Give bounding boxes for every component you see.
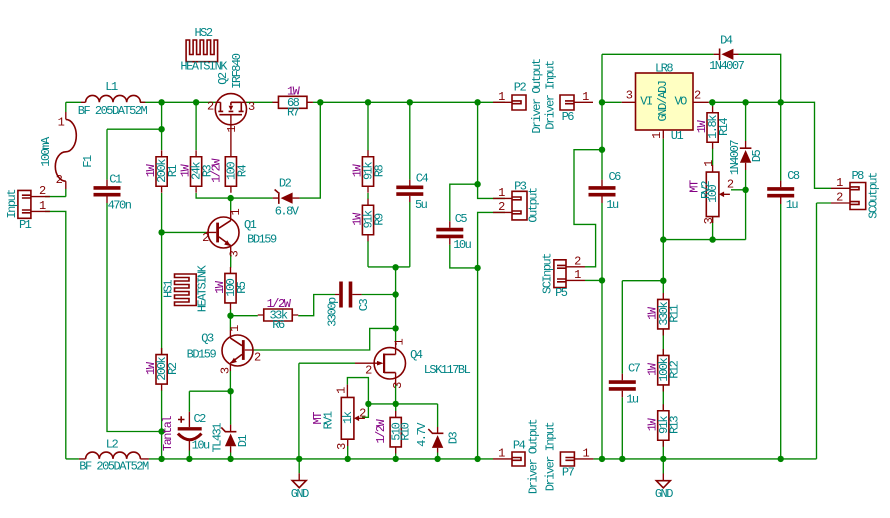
svg-text:1N4007: 1N4007 [709, 59, 745, 73]
svg-text:P3: P3 [514, 179, 527, 193]
svg-text:R4: R4 [235, 165, 249, 178]
svg-text:D3: D3 [446, 432, 460, 445]
svg-text:P7: P7 [562, 466, 575, 480]
svg-text:VI: VI [640, 95, 652, 109]
svg-text:R11: R11 [668, 304, 682, 322]
svg-text:10u: 10u [192, 438, 210, 452]
svg-text:Q4: Q4 [410, 348, 423, 362]
svg-text:C2: C2 [193, 412, 206, 426]
svg-text:Output: Output [526, 188, 540, 223]
svg-text:100: 100 [706, 184, 720, 202]
svg-text:C3: C3 [357, 299, 371, 312]
svg-text:100mA: 100mA [39, 136, 53, 167]
svg-text:U1: U1 [671, 129, 684, 143]
svg-text:GND/ADJ: GND/ADJ [656, 81, 670, 121]
svg-text:HS2: HS2 [194, 26, 212, 40]
svg-text:1u: 1u [786, 198, 799, 212]
svg-text:Driver Output: Driver Output [530, 59, 544, 133]
svg-text:P2: P2 [514, 80, 527, 94]
svg-text:HEATSINK: HEATSINK [195, 264, 209, 312]
svg-text:GND: GND [291, 487, 309, 501]
svg-text:F1: F1 [81, 155, 95, 168]
svg-text:470n: 470n [108, 198, 132, 212]
svg-text:R10: R10 [399, 422, 413, 440]
svg-text:6.8V: 6.8V [275, 205, 300, 219]
svg-text:1/2W: 1/2W [209, 158, 223, 183]
svg-text:HS1: HS1 [161, 280, 175, 298]
svg-text:L2: L2 [106, 438, 119, 452]
svg-text:R2: R2 [166, 362, 180, 375]
svg-text:BD159: BD159 [247, 233, 277, 247]
svg-text:VO: VO [674, 95, 687, 109]
svg-text:P6: P6 [562, 110, 575, 124]
svg-text:1k: 1k [341, 411, 355, 424]
svg-text:P4: P4 [513, 439, 526, 453]
svg-text:1N4007: 1N4007 [728, 140, 742, 176]
svg-text:Q1: Q1 [244, 218, 257, 232]
svg-text:C1: C1 [109, 173, 122, 187]
svg-text:Driver Input: Driver Input [543, 61, 557, 130]
svg-text:Q3: Q3 [201, 332, 214, 346]
svg-text:R12: R12 [668, 360, 682, 378]
svg-text:C6: C6 [608, 170, 621, 184]
svg-text:1u: 1u [626, 392, 639, 406]
svg-text:R6: R6 [272, 318, 285, 332]
svg-text:P8: P8 [851, 169, 864, 183]
svg-text:R7: R7 [287, 106, 300, 120]
svg-text:C5: C5 [455, 212, 468, 226]
svg-text:RV1: RV1 [321, 411, 335, 429]
svg-text:3300p: 3300p [326, 297, 340, 327]
svg-text:P1: P1 [19, 218, 32, 232]
svg-text:1/2W: 1/2W [374, 419, 388, 444]
svg-text:Driver Output: Driver Output [527, 420, 541, 494]
svg-text:GND: GND [655, 487, 673, 501]
svg-text:D5: D5 [750, 150, 764, 163]
svg-text:P5: P5 [555, 286, 568, 300]
svg-text:SCOutput: SCOutput [866, 173, 880, 219]
svg-text:D2: D2 [279, 176, 292, 190]
svg-text:Driver Input: Driver Input [544, 422, 558, 491]
svg-text:Tantal: Tantal [161, 416, 175, 452]
svg-text:IRF840: IRF840 [230, 53, 244, 89]
svg-text:R5: R5 [235, 281, 249, 294]
svg-text:HEATSINK: HEATSINK [180, 60, 228, 74]
svg-text:1u: 1u [606, 198, 619, 212]
svg-text:Q2: Q2 [216, 72, 230, 85]
svg-text:C4: C4 [416, 172, 429, 186]
svg-text:BF 205DAT52M: BF 205DAT52M [79, 460, 149, 474]
svg-text:10u: 10u [453, 238, 471, 252]
svg-text:R9: R9 [372, 213, 386, 226]
svg-text:Input: Input [5, 190, 19, 219]
svg-text:R13: R13 [668, 416, 682, 434]
svg-text:R8: R8 [372, 165, 386, 178]
svg-text:5u: 5u [415, 198, 428, 212]
svg-text:L1: L1 [105, 80, 118, 94]
svg-text:LR8: LR8 [655, 62, 673, 76]
svg-text:D4: D4 [720, 34, 733, 48]
svg-text:LSK117BL: LSK117BL [424, 363, 471, 377]
svg-text:BF 205DAT52M: BF 205DAT52M [78, 104, 148, 118]
svg-text:R14: R14 [717, 118, 731, 136]
svg-text:TL431: TL431 [211, 423, 225, 453]
svg-text:BD159: BD159 [187, 347, 217, 361]
svg-text:4.7V: 4.7V [415, 422, 429, 447]
svg-text:C7: C7 [628, 361, 641, 375]
svg-text:SCInput: SCInput [540, 254, 554, 294]
svg-text:D1: D1 [236, 435, 250, 448]
svg-text:C8: C8 [787, 169, 800, 183]
